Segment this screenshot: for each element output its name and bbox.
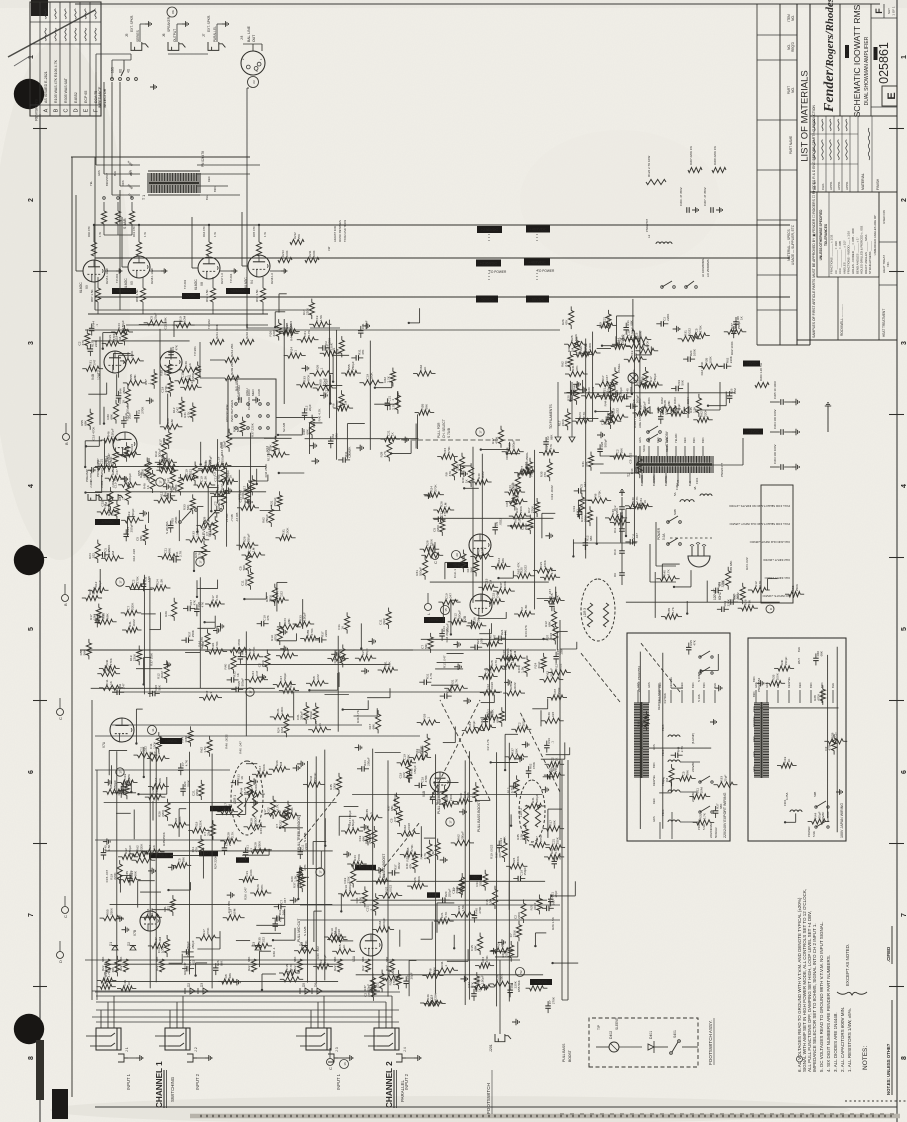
svg-text:1K: 1K xyxy=(318,722,322,727)
svg-text:270K: 270K xyxy=(268,594,272,602)
svg-text:S9B: S9B xyxy=(813,792,817,797)
svg-text:LO 25WRMS: LO 25WRMS xyxy=(706,259,710,277)
svg-text:2.7K: 2.7K xyxy=(421,745,425,752)
svg-text:LDR 2: LDR 2 xyxy=(519,808,523,817)
svg-text:270K: 270K xyxy=(357,853,361,861)
svg-text:.1: .1 xyxy=(369,909,373,912)
svg-text:47K: 47K xyxy=(178,816,182,822)
svg-text:5: 5 xyxy=(28,627,35,631)
svg-text:8: 8 xyxy=(901,1056,907,1060)
svg-text:R24 .022: R24 .022 xyxy=(745,557,749,570)
svg-text:5: 5 xyxy=(901,627,907,631)
svg-text:56K: 56K xyxy=(585,460,589,466)
svg-text:220K: 220K xyxy=(531,505,535,513)
svg-text:250K: 250K xyxy=(556,836,560,844)
svg-text:STRAIGHTNESS ______: STRAIGHTNESS ______ xyxy=(868,241,872,274)
svg-text:47K: 47K xyxy=(193,600,197,605)
svg-text:8A: 8A xyxy=(171,10,175,14)
svg-text:R37 220K: R37 220K xyxy=(250,422,254,437)
svg-text:.1: .1 xyxy=(157,753,161,756)
svg-text:20pF: 20pF xyxy=(244,579,248,586)
svg-text:68K: 68K xyxy=(495,716,499,722)
svg-text:150pF: 150pF xyxy=(121,320,125,329)
svg-text:D1: D1 xyxy=(109,942,113,946)
svg-text:CHK.: CHK. xyxy=(821,183,825,190)
svg-text:150pF: 150pF xyxy=(481,975,485,984)
svg-text:500pF: 500pF xyxy=(382,918,386,927)
svg-text:2.7K: 2.7K xyxy=(635,495,639,502)
svg-text:250pF: 250pF xyxy=(642,401,646,410)
svg-text:5.9A: 5.9A xyxy=(662,533,666,540)
svg-text:3: 3 xyxy=(901,341,907,345)
svg-text:4Ω: 4Ω xyxy=(127,68,131,73)
svg-text:220/240V EXPORT WIRING: 220/240V EXPORT WIRING xyxy=(723,792,727,838)
svg-text:4.7K: 4.7K xyxy=(358,896,362,903)
svg-text:R17 150pF: R17 150pF xyxy=(348,810,352,825)
svg-text:R22: R22 xyxy=(119,965,123,971)
svg-text:FOOTSWITCH: FOOTSWITCH xyxy=(486,1083,491,1114)
svg-text:4: 4 xyxy=(28,484,35,488)
svg-text:220K: 220K xyxy=(729,356,733,363)
svg-text:220K: 220K xyxy=(561,418,565,426)
svg-text:BRN: BRN xyxy=(820,682,824,688)
svg-text:BLK/YEL: BLK/YEL xyxy=(664,475,668,486)
svg-text:1.5K: 1.5K xyxy=(204,475,208,482)
svg-text:GRN: GRN xyxy=(636,682,640,688)
svg-text:J 204: J 204 xyxy=(111,480,115,488)
svg-text:.047: .047 xyxy=(495,592,499,598)
svg-text:56K: 56K xyxy=(165,453,169,459)
svg-text:20pF: 20pF xyxy=(366,984,370,991)
svg-text:V4: V4 xyxy=(250,280,254,284)
svg-text:100K: 100K xyxy=(241,491,245,499)
svg-text:BLK/RED: BLK/RED xyxy=(640,475,644,486)
svg-text:220K: 220K xyxy=(436,524,440,532)
svg-text:V1A: V1A xyxy=(352,955,356,962)
svg-text:270K: 270K xyxy=(140,407,144,414)
svg-text:.047: .047 xyxy=(175,407,179,413)
svg-text:S401: S401 xyxy=(673,1030,677,1038)
svg-text:REF NAME: REF NAME xyxy=(845,45,849,59)
svg-text:GRN: GRN xyxy=(652,744,656,750)
svg-text:4.7K: 4.7K xyxy=(444,911,448,918)
svg-text:V4B: V4B xyxy=(91,374,95,380)
svg-text:250K: 250K xyxy=(254,816,258,824)
svg-text:100K: 100K xyxy=(262,763,266,771)
svg-text:100K: 100K xyxy=(161,945,165,953)
svg-text:1M: 1M xyxy=(570,347,574,352)
svg-text:68K: 68K xyxy=(719,804,723,809)
svg-text:R20 .022: R20 .022 xyxy=(316,946,320,959)
svg-text:47K: 47K xyxy=(279,917,283,922)
svg-text:R35 250K: R35 250K xyxy=(162,831,166,846)
svg-text:S10A: S10A xyxy=(642,445,646,452)
svg-text:+40MVDC: +40MVDC xyxy=(116,289,132,293)
svg-text:.047: .047 xyxy=(493,634,497,640)
svg-text:68K: 68K xyxy=(306,428,310,434)
svg-text:+40MVDC: +40MVDC xyxy=(230,289,246,293)
svg-text:47K: 47K xyxy=(361,350,365,355)
svg-text:10M: 10M xyxy=(209,529,213,535)
svg-text:BASS: BASS xyxy=(429,893,439,897)
svg-text:8Ω: 8Ω xyxy=(119,68,123,73)
svg-text:YEL/RD: YEL/RD xyxy=(674,434,678,443)
svg-text:.047: .047 xyxy=(122,683,126,689)
svg-text:.1: .1 xyxy=(550,741,554,744)
svg-text:B: B xyxy=(63,603,68,606)
svg-text:R305 WAS 6AT: R305 WAS 6AT xyxy=(64,77,68,103)
svg-text:1 W: 1 W xyxy=(263,232,267,237)
svg-text:GRN: GRN xyxy=(126,160,133,167)
svg-text:.0022: .0022 xyxy=(160,671,164,679)
svg-text:SLEEVE: SLEEVE xyxy=(615,1018,619,1030)
svg-text:.022: .022 xyxy=(220,484,224,490)
svg-text:270K: 270K xyxy=(485,954,489,962)
svg-text:500pF: 500pF xyxy=(419,567,423,576)
svg-text:BRN: BRN xyxy=(752,691,756,697)
svg-text:F: F xyxy=(874,8,884,14)
svg-text:270K: 270K xyxy=(162,437,166,445)
svg-text:220K: 220K xyxy=(726,599,730,606)
svg-text:LDR 3: LDR 3 xyxy=(583,608,587,617)
svg-text:R19 .0022: R19 .0022 xyxy=(550,485,554,500)
svg-text:47K: 47K xyxy=(81,339,85,345)
svg-text:RED: RED xyxy=(798,682,802,688)
svg-text:V1B: V1B xyxy=(422,791,426,797)
svg-text:REVISIONS: REVISIONS xyxy=(34,99,39,121)
svg-text:68K: 68K xyxy=(425,403,429,409)
svg-text:R20 .047: R20 .047 xyxy=(548,589,552,602)
svg-text:R126 2.7K 10W: R126 2.7K 10W xyxy=(647,156,651,177)
svg-text:1M: 1M xyxy=(488,580,492,585)
svg-text:.0022: .0022 xyxy=(499,518,503,526)
svg-text:BLU: BLU xyxy=(205,195,209,200)
svg-text:470K: 470K xyxy=(273,633,277,641)
svg-text:DRN: DRN xyxy=(121,180,125,186)
svg-text:250pF: 250pF xyxy=(653,373,657,382)
svg-text:2.7K: 2.7K xyxy=(564,360,568,367)
svg-text:T.P.202: T.P.202 xyxy=(207,319,211,329)
svg-text:R218 1.0: R218 1.0 xyxy=(270,273,274,284)
svg-text:TREBLE: TREBLE xyxy=(359,866,373,870)
svg-text:C7 150pF: C7 150pF xyxy=(393,794,397,808)
svg-text:47K: 47K xyxy=(470,981,474,987)
svg-text:S 10A: S 10A xyxy=(697,694,701,702)
svg-text:100K: 100K xyxy=(775,672,779,680)
svg-text:V8: V8 xyxy=(200,282,204,286)
svg-text:10M: 10M xyxy=(591,386,595,392)
svg-text:100K: 100K xyxy=(286,527,290,535)
svg-text:2.7K: 2.7K xyxy=(129,869,133,876)
svg-text:68K: 68K xyxy=(101,613,105,618)
svg-text:BRN: BRN xyxy=(702,682,706,688)
svg-text:RED/YEL: RED/YEL xyxy=(652,774,656,786)
svg-text:68K: 68K xyxy=(722,579,726,585)
svg-text:TO POWER: TO POWER xyxy=(489,270,507,274)
svg-text:CH2 INPUT +36VDC: CH2 INPUT +36VDC xyxy=(763,558,790,562)
svg-text:T.P.204: T.P.204 xyxy=(229,273,233,283)
svg-text:68K: 68K xyxy=(139,535,143,541)
svg-text:5A: 5A xyxy=(673,492,677,496)
svg-text:V7A: V7A xyxy=(102,741,106,748)
svg-text:20pF: 20pF xyxy=(524,523,528,530)
svg-text:PULL BASS BOOST: PULL BASS BOOST xyxy=(477,801,481,832)
svg-text:025861: 025861 xyxy=(877,42,891,84)
svg-text:220K: 220K xyxy=(133,653,137,661)
svg-text:100K: 100K xyxy=(285,250,289,257)
svg-text:270K: 270K xyxy=(629,387,633,394)
svg-text:120VAC: 120VAC xyxy=(713,588,717,600)
svg-text:0VDC BETWEEN: 0VDC BETWEEN xyxy=(230,400,234,422)
svg-text:250pF: 250pF xyxy=(113,780,117,789)
svg-text:PULL TREBLE BOOST: PULL TREBLE BOOST xyxy=(437,779,441,814)
svg-text:220K: 220K xyxy=(195,788,199,796)
svg-text:D301 THRU D304: D301 THRU D304 xyxy=(633,403,637,428)
svg-text:.022: .022 xyxy=(616,408,620,414)
svg-text:10M: 10M xyxy=(280,727,284,733)
svg-text:1.5K: 1.5K xyxy=(319,314,323,321)
svg-text:3: 3 xyxy=(255,70,259,72)
svg-text:7: 7 xyxy=(901,913,907,917)
svg-text:BRN: BRN xyxy=(692,437,696,443)
svg-text:1.5K: 1.5K xyxy=(107,845,111,851)
svg-text:68K: 68K xyxy=(110,413,114,419)
svg-text:BRN: BRN xyxy=(213,186,217,192)
svg-text:5. DC VOLTAGES READ TO GROUND: 5. DC VOLTAGES READ TO GROUND WITH V.T.V… xyxy=(819,921,824,1072)
svg-text:220K: 220K xyxy=(513,929,517,937)
svg-text:2.7K: 2.7K xyxy=(703,812,707,819)
svg-text:J 8: J 8 xyxy=(240,36,244,40)
svg-text:IMPEDANCE: IMPEDANCE xyxy=(98,86,102,108)
svg-text:220K: 220K xyxy=(304,843,308,850)
svg-text:.1: .1 xyxy=(430,997,434,1000)
svg-text:15: 15 xyxy=(444,608,448,612)
svg-text:R37 1.5K: R37 1.5K xyxy=(149,652,153,666)
svg-text:2.7K: 2.7K xyxy=(582,411,586,418)
svg-text:220K: 220K xyxy=(198,819,202,827)
svg-text:CHANNEL 1: CHANNEL 1 xyxy=(155,1061,164,1108)
svg-text:220K: 220K xyxy=(543,559,547,567)
svg-text:RED: RED xyxy=(683,437,687,443)
svg-text:47K: 47K xyxy=(543,471,547,477)
svg-text:1 W: 1 W xyxy=(143,232,147,237)
svg-text:D: D xyxy=(769,607,773,610)
svg-text:220K: 220K xyxy=(434,992,438,1000)
svg-text:20pF: 20pF xyxy=(223,441,227,448)
svg-text:S9B: S9B xyxy=(673,509,677,515)
svg-text:270K: 270K xyxy=(698,324,702,332)
svg-text:R211 100K: R211 100K xyxy=(215,324,219,339)
svg-text:47K: 47K xyxy=(266,615,270,620)
svg-text:1K: 1K xyxy=(106,979,110,984)
svg-text:BRN: BRN xyxy=(652,762,656,768)
svg-text:1.5K: 1.5K xyxy=(524,604,528,611)
svg-text:.1: .1 xyxy=(444,964,448,967)
svg-text:PANEL: PANEL xyxy=(617,363,621,373)
svg-text:C303 100 100V: C303 100 100V xyxy=(773,444,777,464)
svg-text:.047: .047 xyxy=(166,477,170,483)
svg-text:HEAT TREATMENT: HEAT TREATMENT xyxy=(882,309,886,337)
svg-text:YEL: YEL xyxy=(89,181,93,186)
svg-text:DR. BY: DR. BY xyxy=(813,180,817,190)
svg-text:PN026554: PN026554 xyxy=(757,677,761,692)
svg-text:D3: D3 xyxy=(252,942,256,946)
svg-text:1K: 1K xyxy=(740,316,744,320)
svg-text:1: 1 xyxy=(901,55,907,59)
svg-text:68K: 68K xyxy=(361,957,365,962)
svg-text:-16 DB: -16 DB xyxy=(235,513,239,522)
svg-text:4A: 4A xyxy=(693,486,697,490)
svg-text:68K: 68K xyxy=(247,957,251,962)
svg-text:R308 220K 1W: R308 220K 1W xyxy=(713,146,717,165)
svg-text:BRN: BRN xyxy=(691,682,695,688)
svg-text:250pF: 250pF xyxy=(461,831,465,840)
svg-text:R209 25K: R209 25K xyxy=(230,362,234,375)
svg-text:R63 1.5K: R63 1.5K xyxy=(255,289,259,302)
svg-text:2.7K: 2.7K xyxy=(680,746,684,752)
svg-text:2: 2 xyxy=(901,198,907,202)
svg-text:220K: 220K xyxy=(347,875,351,883)
svg-text:STANDBY: STANDBY xyxy=(665,430,669,446)
svg-text:4.7K: 4.7K xyxy=(671,606,675,613)
svg-text:250K: 250K xyxy=(456,463,460,471)
svg-text:1K: 1K xyxy=(240,776,244,780)
svg-text:56K: 56K xyxy=(282,809,286,815)
svg-text:220K: 220K xyxy=(666,314,670,321)
svg-text:SHT: SHT xyxy=(887,8,891,14)
svg-text:NO.: NO. xyxy=(791,87,795,93)
svg-text:60HZ: 60HZ xyxy=(718,592,722,600)
svg-text:250K: 250K xyxy=(110,907,114,915)
svg-text:1.5K: 1.5K xyxy=(160,578,164,585)
svg-text:SELECTOR: SELECTOR xyxy=(103,88,107,108)
svg-text:S10B: S10B xyxy=(665,445,669,452)
svg-text:BLK: BLK xyxy=(797,647,801,652)
svg-text:56K: 56K xyxy=(736,594,740,599)
svg-text:PN 026478: PN 026478 xyxy=(201,151,205,167)
svg-text:6L6GC: 6L6GC xyxy=(79,282,83,293)
svg-text:100K: 100K xyxy=(333,782,337,790)
svg-text:100K: 100K xyxy=(280,706,284,714)
svg-text:250pF: 250pF xyxy=(476,614,480,623)
svg-text:250pF: 250pF xyxy=(323,955,327,964)
svg-text:PULL FOR: PULL FOR xyxy=(437,422,441,438)
svg-text:RED: RED xyxy=(652,798,656,804)
svg-text:.1: .1 xyxy=(369,812,373,815)
svg-text:68K: 68K xyxy=(111,966,115,972)
svg-text:PULL BASS: PULL BASS xyxy=(562,1043,566,1062)
svg-text:47K: 47K xyxy=(575,365,579,371)
svg-text:1.5K: 1.5K xyxy=(203,745,207,752)
svg-text:125VDC: 125VDC xyxy=(101,520,114,524)
svg-text:C2 56K: C2 56K xyxy=(663,692,667,703)
svg-text:2.7K: 2.7K xyxy=(391,402,395,409)
svg-text:SCHEMATIC IOOWATT RMS: SCHEMATIC IOOWATT RMS xyxy=(852,4,862,117)
svg-text:29: 29 xyxy=(455,553,459,557)
svg-text:.0022: .0022 xyxy=(533,902,537,910)
svg-text:E: E xyxy=(886,92,898,99)
svg-text:150pF: 150pF xyxy=(512,440,516,449)
svg-text:.047: .047 xyxy=(163,369,167,375)
svg-text:C15 .047: C15 .047 xyxy=(105,869,109,882)
svg-text:1K: 1K xyxy=(146,484,150,489)
svg-text:1K: 1K xyxy=(277,447,281,452)
svg-text:J7: J7 xyxy=(202,33,206,37)
svg-text:R40 4.7K: R40 4.7K xyxy=(318,408,322,422)
svg-text:470K: 470K xyxy=(532,762,536,769)
svg-text:17: 17 xyxy=(319,870,323,874)
svg-text:4.7K: 4.7K xyxy=(494,659,498,666)
svg-text:68K: 68K xyxy=(372,723,376,729)
svg-text:56K: 56K xyxy=(424,642,428,648)
svg-text:USED ON: USED ON xyxy=(882,210,886,224)
svg-text:2.7K: 2.7K xyxy=(550,567,554,574)
svg-text:250K: 250K xyxy=(576,382,580,389)
svg-text:56K: 56K xyxy=(107,664,111,670)
svg-text:6.25A: 6.25A xyxy=(785,793,789,800)
svg-text:1K: 1K xyxy=(465,478,469,483)
svg-text:16Ω: 16Ω xyxy=(111,66,115,73)
svg-text:.0022: .0022 xyxy=(513,682,517,690)
svg-text:R22: R22 xyxy=(361,965,365,971)
svg-text:68K: 68K xyxy=(553,819,557,825)
svg-text:10M: 10M xyxy=(182,316,186,322)
svg-text:1M: 1M xyxy=(343,400,347,405)
svg-text:INPUT 1: INPUT 1 xyxy=(126,1073,131,1090)
svg-text:PARALLEL: PARALLEL xyxy=(400,1080,405,1102)
svg-text:(6.3AMP): (6.3AMP) xyxy=(691,733,695,744)
svg-text:R33 500pF: R33 500pF xyxy=(126,405,130,420)
svg-text:BLK: BLK xyxy=(688,481,692,486)
svg-text:470K: 470K xyxy=(306,374,310,382)
svg-text:RED: RED xyxy=(656,437,660,443)
svg-text:D5: D5 xyxy=(302,983,306,987)
svg-text:J6: J6 xyxy=(162,33,166,37)
svg-text:68K: 68K xyxy=(686,769,690,775)
svg-text:68K: 68K xyxy=(819,651,823,656)
svg-text:OUTPUT: OUTPUT xyxy=(173,29,177,42)
svg-text:.0022: .0022 xyxy=(407,823,411,831)
svg-text:270K: 270K xyxy=(217,473,221,481)
svg-text:220K: 220K xyxy=(430,538,434,546)
svg-text:250pF: 250pF xyxy=(368,835,372,844)
svg-text:.022: .022 xyxy=(316,674,320,680)
svg-text:+236VDC: +236VDC xyxy=(481,227,499,232)
svg-text:10M: 10M xyxy=(233,908,237,914)
svg-text:47K: 47K xyxy=(127,773,131,779)
svg-text:R19 470K: R19 470K xyxy=(104,962,108,977)
svg-text:CH. SELECT: CH. SELECT xyxy=(442,419,446,438)
svg-text:10M: 10M xyxy=(489,899,493,905)
svg-text:R22: R22 xyxy=(333,965,337,971)
svg-text:R64 470: R64 470 xyxy=(202,226,206,237)
svg-text:R37 250pF: R37 250pF xyxy=(226,470,230,485)
svg-text:OUTPUT: OUTPUT xyxy=(89,470,93,483)
svg-text:20pF: 20pF xyxy=(537,661,541,668)
svg-text:C: C xyxy=(64,108,70,112)
svg-text:C305 10 100V: C305 10 100V xyxy=(773,381,777,399)
svg-text:150pF: 150pF xyxy=(784,657,788,666)
svg-text:1K: 1K xyxy=(516,494,520,499)
svg-text:BLK: BLK xyxy=(713,683,717,688)
svg-text:500pF: 500pF xyxy=(488,665,492,674)
svg-text:500pF: 500pF xyxy=(635,395,639,404)
svg-text:.1: .1 xyxy=(294,350,298,353)
svg-text:220K: 220K xyxy=(703,409,707,417)
svg-text:1M: 1M xyxy=(513,650,517,655)
svg-text:17: 17 xyxy=(159,480,163,484)
svg-text:250K: 250K xyxy=(795,583,799,591)
